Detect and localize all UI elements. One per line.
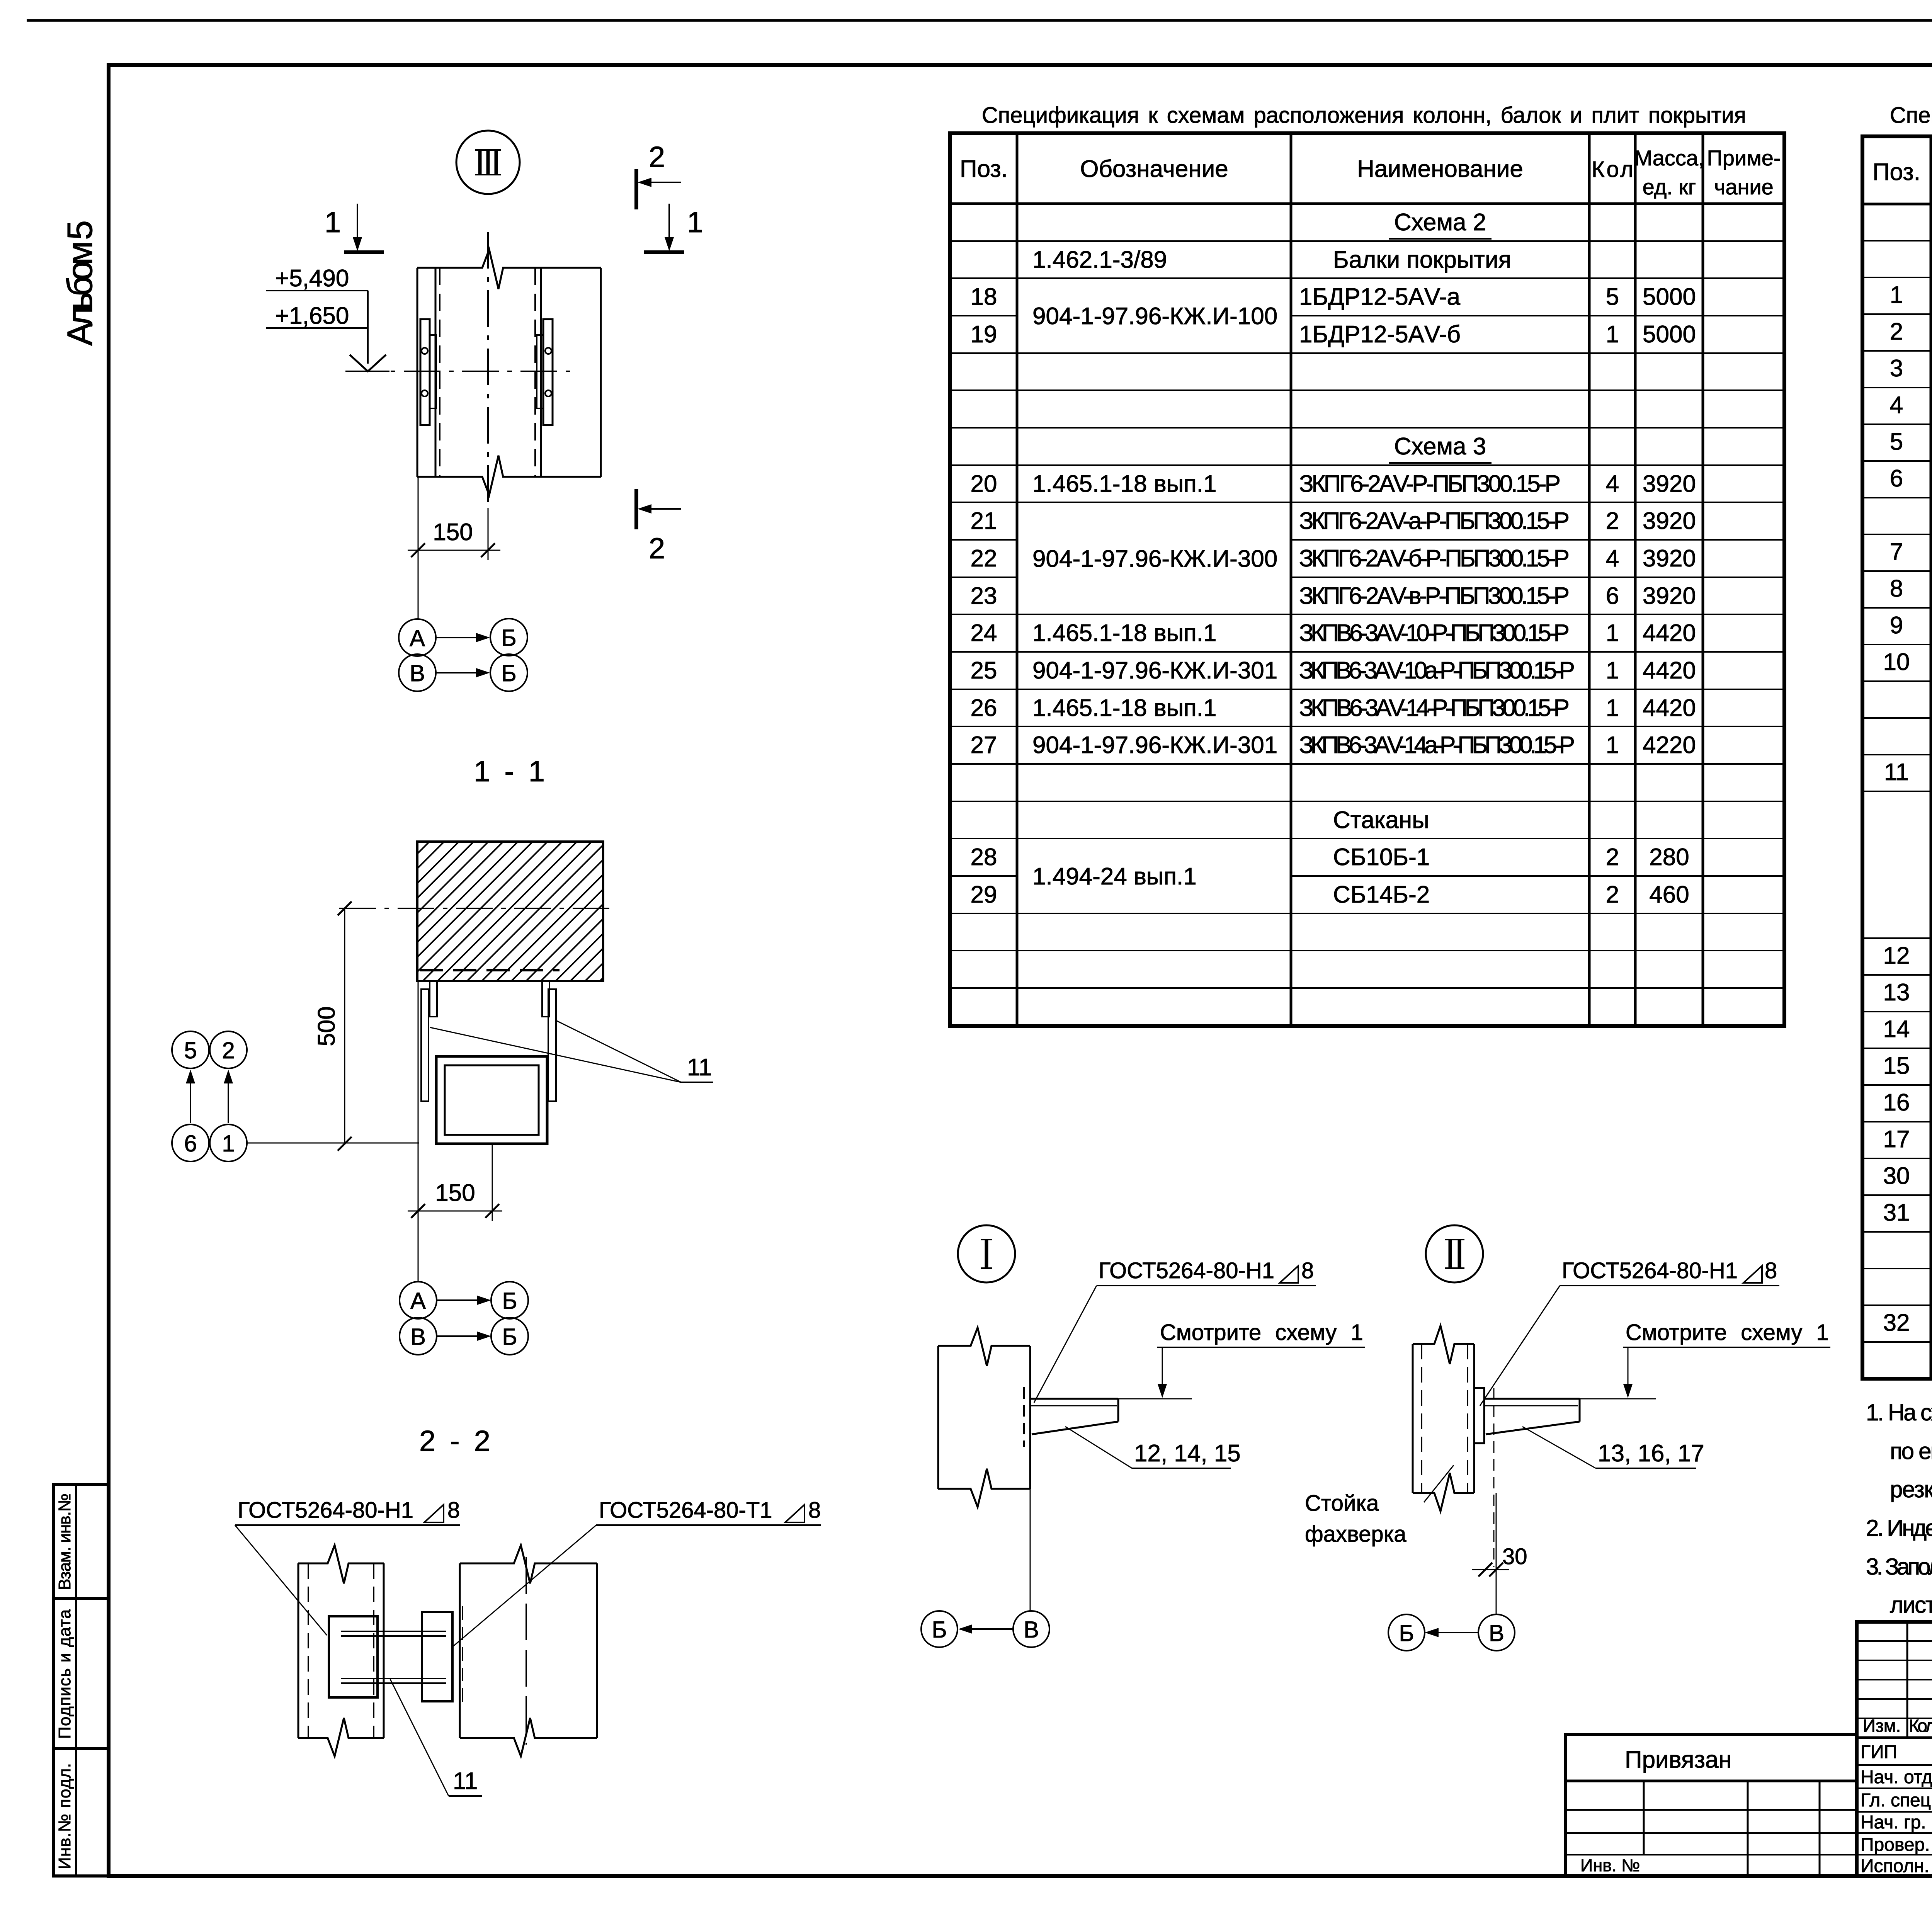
dimension 500 (247, 901, 419, 1151)
column detail I (938, 1328, 1030, 1507)
leader 13 16 17 (1522, 1427, 1696, 1468)
svg-text:Б: Б (1399, 1620, 1414, 1646)
svg-text:Б: Б (502, 1288, 517, 1314)
svg-text:32: 32 (1883, 1310, 1910, 1336)
svg-text:В: В (410, 660, 425, 686)
leader 11 section 1-1 (430, 1021, 713, 1082)
svg-text:15: 15 (1883, 1053, 1910, 1079)
grid line and bubbles detail I (1030, 1489, 1031, 1611)
svg-text:150: 150 (435, 1180, 475, 1206)
svg-text:чание: чание (1714, 175, 1774, 199)
svg-text:2. Индекс: 2. Индекс (1866, 1515, 1932, 1541)
detail I bubble (958, 1225, 1015, 1282)
svg-text:Кол.уч: Кол.уч (1909, 1716, 1932, 1736)
svg-text:8: 8 (1765, 1258, 1777, 1283)
svg-text:11: 11 (1884, 759, 1909, 786)
svg-text:Смотрите схему 1: Смотрите схему 1 (1626, 1320, 1829, 1345)
привязан block (1566, 1735, 1857, 1876)
svg-text:ЗКПГ6-2АV-б-Р-ПБП300.15-Р: ЗКПГ6-2АV-б-Р-ПБП300.15-Р (1299, 545, 1570, 572)
svg-text:Стойка: Стойка (1305, 1491, 1379, 1516)
svg-text:Поз.: Поз. (1872, 159, 1920, 185)
connection plates left (420, 319, 436, 425)
svg-text:Изм.: Изм. (1863, 1716, 1901, 1736)
svg-text:2 - 2: 2 - 2 (419, 1425, 490, 1458)
svg-text:Обозначение: Обозначение (1080, 156, 1228, 182)
svg-text:ЗКПВ6-3АV-14а-Р-ПБП300.15-Р: ЗКПВ6-3АV-14а-Р-ПБП300.15-Р (1299, 732, 1575, 759)
section mark 2 bottom (636, 489, 681, 529)
svg-text:3920: 3920 (1643, 508, 1696, 534)
svg-text:12: 12 (1883, 942, 1910, 969)
svg-text:Поз.: Поз. (960, 156, 1008, 182)
beam channel section (436, 1056, 547, 1144)
svg-text:29: 29 (971, 881, 997, 908)
svg-text:3. Заполнение швов между п: 3. Заполнение швов между плитами выполня… (1866, 1554, 1932, 1580)
svg-text:+1,650: +1,650 (275, 303, 349, 329)
svg-text:Нач. гр.: Нач. гр. (1861, 1812, 1926, 1833)
svg-text:21: 21 (971, 508, 997, 534)
svg-text:Балки покрытия: Балки покрытия (1333, 247, 1511, 273)
svg-text:ЗКПВ6-3АV-10-Р-ПБП300.15-Р: ЗКПВ6-3АV-10-Р-ПБП300.15-Р (1299, 620, 1570, 646)
svg-text:резкой арматуры.: резкой арматуры. (1890, 1476, 1932, 1502)
svg-text:Инв.№ подл.: Инв.№ подл. (55, 1763, 74, 1869)
svg-text:1 - 1: 1 - 1 (474, 755, 545, 788)
svg-text:23: 23 (971, 583, 997, 609)
svg-text:6: 6 (1606, 583, 1619, 609)
position bubbles 5 2 6 1 (172, 1031, 247, 1162)
svg-text:4: 4 (1606, 545, 1619, 572)
svg-text:Гл. спец.: Гл. спец. (1861, 1790, 1932, 1811)
svg-text:2: 2 (1606, 881, 1619, 908)
svg-text:4420: 4420 (1643, 620, 1696, 646)
svg-text:ГОСТ5264-80-Т1: ГОСТ5264-80-Т1 (599, 1498, 772, 1523)
svg-text:4220: 4220 (1643, 732, 1696, 759)
svg-text:280: 280 (1649, 844, 1689, 871)
svg-text:4: 4 (1606, 471, 1619, 497)
right specification table grid (1862, 136, 1932, 1379)
svg-text:2: 2 (649, 532, 665, 565)
section mark 2 top (636, 169, 681, 209)
svg-text:7: 7 (1890, 539, 1903, 565)
svg-text:Подпись и дата: Подпись и дата (55, 1609, 74, 1739)
svg-text:лист 07 серии 2.400-12.93.в: лист 07 серии 2.400-12.93.в.1. (1890, 1592, 1932, 1618)
svg-text:6: 6 (184, 1131, 197, 1156)
svg-text:3920: 3920 (1643, 471, 1696, 497)
svg-text:ГОСТ5264-80-Н1: ГОСТ5264-80-Н1 (1562, 1258, 1738, 1283)
svg-text:1: 1 (1606, 695, 1619, 721)
beam hanger plates (421, 981, 556, 1101)
svg-text:150: 150 (433, 519, 473, 546)
svg-text:25: 25 (971, 657, 997, 684)
svg-text:ЗКПГ6-2АV-в-Р-ПБП300.15-Р: ЗКПГ6-2АV-в-Р-ПБП300.15-Р (1299, 583, 1570, 609)
svg-text:1.465.1-18 вып.1: 1.465.1-18 вып.1 (1032, 620, 1216, 646)
svg-text:1: 1 (222, 1131, 235, 1156)
svg-text:24: 24 (971, 620, 997, 646)
svg-text:Приме-: Приме- (1707, 146, 1781, 170)
svg-text:Кол: Кол (1592, 157, 1633, 182)
svg-text:4: 4 (1890, 392, 1903, 418)
svg-text:Б: Б (932, 1617, 947, 1643)
grid bubbles detail II (1388, 1614, 1515, 1651)
svg-text:13, 16, 17: 13, 16, 17 (1598, 1440, 1704, 1467)
svg-text:12, 14, 15: 12, 14, 15 (1134, 1440, 1241, 1467)
svg-text:5: 5 (184, 1037, 197, 1063)
svg-text:3: 3 (1890, 355, 1903, 382)
svg-text:4420: 4420 (1643, 657, 1696, 684)
svg-text:+5,490: +5,490 (275, 265, 349, 292)
svg-text:5000: 5000 (1643, 321, 1696, 348)
svg-text:ЗКПВ6-3АV-14-Р-ПБП300.15-Р: ЗКПВ6-3АV-14-Р-ПБП300.15-Р (1299, 695, 1570, 721)
svg-text:5000: 5000 (1643, 284, 1696, 310)
svg-text:8: 8 (1890, 575, 1903, 602)
svg-text:Провер.: Провер. (1861, 1835, 1930, 1855)
svg-text:1: 1 (1890, 282, 1903, 308)
svg-text:26: 26 (971, 695, 997, 721)
dimension 150 section 1-1 (408, 981, 502, 1282)
left column section 2-2 (298, 1545, 384, 1756)
svg-text:Смотрите схему 1: Смотрите схему 1 (1160, 1320, 1363, 1345)
svg-text:2: 2 (222, 1037, 235, 1063)
svg-text:Наименование: Наименование (1357, 156, 1523, 182)
svg-text:5: 5 (1606, 284, 1619, 310)
svg-text:11: 11 (687, 1054, 712, 1081)
svg-text:17: 17 (1883, 1126, 1910, 1153)
svg-text:500: 500 (313, 1006, 340, 1046)
svg-text:ЗКПГ6-2АV-а-Р-ПБП300.15-Р: ЗКПГ6-2АV-а-Р-ПБП300.15-Р (1299, 508, 1570, 534)
svg-text:11: 11 (453, 1768, 478, 1794)
svg-text:Альбом 5: Альбом 5 (60, 220, 100, 346)
column joint plan view (345, 232, 601, 508)
svg-text:3920: 3920 (1643, 583, 1696, 609)
svg-text:6: 6 (1890, 465, 1903, 492)
svg-text:ед. кг: ед. кг (1643, 175, 1696, 199)
svg-text:ЗКПГ6-2АV-Р-ПБП300.15-Р: ЗКПГ6-2АV-Р-ПБП300.15-Р (1299, 471, 1561, 497)
svg-text:1.465.1-18 вып.1: 1.465.1-18 вып.1 (1032, 695, 1216, 721)
svg-text:904-1-97.96-КЖ.И-300: 904-1-97.96-КЖ.И-300 (1032, 546, 1277, 572)
svg-text:2: 2 (1606, 844, 1619, 871)
svg-text:1: 1 (1606, 321, 1619, 348)
svg-text:А: А (410, 625, 425, 651)
right column section 2-2 (460, 1545, 597, 1756)
svg-text:8: 8 (808, 1498, 821, 1523)
svg-text:1.462.1-3/89: 1.462.1-3/89 (1032, 247, 1167, 273)
svg-text:27: 27 (971, 732, 997, 759)
grid bubbles node III (399, 619, 527, 691)
column detail II (1413, 1326, 1474, 1511)
leader 11 section 2-2 (390, 1679, 482, 1796)
slab axis line (339, 908, 614, 909)
svg-text:19: 19 (971, 321, 997, 348)
dimension 30 detail II (1472, 1493, 1509, 1614)
svg-text:904-1-97.96-КЖ.И-100: 904-1-97.96-КЖ.И-100 (1032, 303, 1277, 330)
svg-text:2: 2 (1890, 318, 1903, 345)
svg-text:1БДР12-5АV-б: 1БДР12-5АV-б (1299, 321, 1461, 348)
svg-text:Взам. инв.№: Взам. инв.№ (55, 1493, 74, 1590)
svg-text:ГОСТ5264-80-Н1: ГОСТ5264-80-Н1 (1099, 1258, 1274, 1283)
svg-text:22: 22 (971, 545, 997, 572)
svg-text:28: 28 (971, 844, 997, 871)
svg-text:16: 16 (1883, 1089, 1910, 1116)
svg-text:2: 2 (649, 141, 665, 173)
connection plates right (537, 319, 553, 425)
svg-text:18: 18 (971, 284, 997, 310)
svg-text:14: 14 (1883, 1016, 1910, 1043)
svg-text:В: В (1024, 1617, 1039, 1643)
svg-text:30: 30 (1502, 1544, 1527, 1569)
svg-text:ЗКПВ6-3АV-10а-Р-ПБП300.15-Р: ЗКПВ6-3АV-10а-Р-ПБП300.15-Р (1299, 657, 1575, 684)
svg-text:1: 1 (1606, 620, 1619, 646)
svg-text:Исполн.: Исполн. (1861, 1856, 1929, 1876)
left specification table grid (950, 133, 1784, 1026)
svg-text:Схема 2: Схема 2 (1394, 209, 1486, 236)
svg-text:9: 9 (1890, 612, 1903, 639)
svg-text:СБ14Б-2: СБ14Б-2 (1333, 881, 1430, 908)
svg-text:В: В (410, 1324, 426, 1350)
svg-text:8: 8 (447, 1498, 460, 1523)
console bracket detail I (1030, 1399, 1192, 1434)
svg-text:904-1-97.96-КЖ.И-301: 904-1-97.96-КЖ.И-301 (1032, 732, 1277, 759)
svg-text:904-1-97.96-КЖ.И-301: 904-1-97.96-КЖ.И-301 (1032, 657, 1277, 684)
leader 12 14 15 (1065, 1427, 1231, 1468)
title block outer (1857, 1622, 1932, 1876)
svg-text:31: 31 (1883, 1199, 1910, 1226)
svg-text:Спецификация к схемам располож: Спецификация к схемам расположения колон… (1890, 103, 1932, 128)
svg-text:Схема 3: Схема 3 (1394, 433, 1486, 460)
svg-text:Привязан: Привязан (1625, 1747, 1732, 1773)
svg-text:Б: Б (502, 1324, 517, 1350)
svg-text:В: В (1489, 1620, 1504, 1646)
svg-text:Б: Б (501, 625, 516, 651)
svg-text:Инв. №: Инв. № (1580, 1855, 1640, 1875)
svg-text:Нач. отд.: Нач. отд. (1861, 1767, 1932, 1787)
seat plate detail II (1474, 1388, 1484, 1443)
dimension 150 node III (408, 477, 500, 619)
detail II bubble (1426, 1225, 1483, 1282)
svg-text:460: 460 (1649, 881, 1689, 908)
svg-text:А: А (410, 1288, 426, 1314)
svg-text:Спецификация к схемам располож: Спецификация к схемам расположения колон… (982, 103, 1746, 128)
svg-text:13: 13 (1883, 979, 1910, 1006)
svg-text:30: 30 (1883, 1163, 1910, 1189)
svg-text:Масса,: Масса, (1634, 146, 1704, 170)
svg-text:1: 1 (325, 206, 341, 239)
svg-text:1: 1 (687, 206, 703, 239)
svg-text:1БДР12-5АV-а: 1БДР12-5АV-а (1299, 284, 1461, 310)
svg-text:фахверка: фахверка (1305, 1522, 1406, 1547)
svg-text:1: 1 (1606, 732, 1619, 759)
sheet top edge line (27, 19, 1932, 22)
svg-text:1. На схеме 3 отверстие 2: 1. На схеме 3 отверстие 200х200 выполнит… (1866, 1400, 1932, 1425)
svg-text:1: 1 (1606, 657, 1619, 684)
console bracket detail II (1484, 1388, 1656, 1567)
left stamp boxes column (54, 1485, 109, 1876)
svg-text:20: 20 (971, 471, 997, 497)
svg-text:10: 10 (1883, 649, 1910, 675)
svg-text:Стаканы: Стаканы (1333, 807, 1429, 833)
hatched slab (417, 842, 603, 981)
svg-text:ГОСТ5264-80-Н1: ГОСТ5264-80-Н1 (238, 1498, 413, 1523)
grid bubbles section 1-1 (400, 1282, 528, 1355)
svg-text:СБ10Б-1: СБ10Б-1 (1333, 844, 1430, 871)
svg-text:5: 5 (1890, 429, 1903, 455)
connection plates section 2-2 (329, 1606, 463, 1706)
svg-text:2: 2 (1606, 508, 1619, 534)
svg-text:4420: 4420 (1643, 695, 1696, 721)
svg-text:8: 8 (1301, 1258, 1314, 1283)
node III bubble (456, 131, 520, 194)
hidden edge dashed (420, 969, 560, 971)
svg-text:по его периметру дыр ∅ 20-: по его периметру дыр ∅ 20-25мм с последу… (1890, 1438, 1932, 1464)
svg-text:Б: Б (501, 660, 516, 686)
svg-text:1.494-24 вып.1: 1.494-24 вып.1 (1032, 863, 1197, 890)
svg-text:ГИП: ГИП (1861, 1742, 1897, 1762)
svg-text:1.465.1-18 вып.1: 1.465.1-18 вып.1 (1032, 471, 1216, 497)
svg-text:3920: 3920 (1643, 545, 1696, 572)
